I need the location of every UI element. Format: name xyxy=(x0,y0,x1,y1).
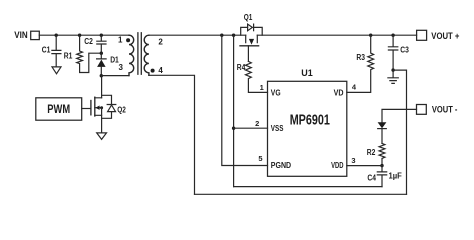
ground (Q2 source) xyxy=(97,133,107,140)
svg-text:R4: R4 xyxy=(237,63,246,72)
svg-text:5: 5 xyxy=(258,154,262,163)
svg-text:VOUT +: VOUT + xyxy=(431,30,460,41)
wire: Q2 source to ground xyxy=(101,108,103,133)
node: C3 bottom / output return xyxy=(391,68,394,71)
wire: PWM to Q2 gate xyxy=(82,108,91,110)
node: C3 tap xyxy=(391,34,394,37)
primary phase dot xyxy=(126,38,130,42)
svg-text:U1: U1 xyxy=(301,68,313,79)
PWM block xyxy=(36,98,82,120)
svg-text:VD: VD xyxy=(334,89,344,98)
VOUT- terminal xyxy=(417,105,427,115)
node: VSS branch xyxy=(232,34,235,37)
transistor Q2 xyxy=(91,97,126,116)
op-amp U1 (MP6901 controller) box xyxy=(268,81,347,176)
node: C1 tap xyxy=(55,34,58,37)
svg-text:PWM: PWM xyxy=(47,103,70,116)
svg-text:Q2: Q2 xyxy=(117,106,126,115)
node: C2 tap xyxy=(100,34,103,37)
transformer core xyxy=(138,33,141,74)
svg-text:VDD: VDD xyxy=(331,161,344,170)
svg-text:VG: VG xyxy=(271,89,281,98)
svg-text:VIN: VIN xyxy=(14,30,27,40)
wire: rail to VSS / PGND cap rail xyxy=(233,35,235,186)
wire: VOUT- to clamp diode xyxy=(382,109,417,122)
diode D1 xyxy=(97,53,120,75)
VIN terminal xyxy=(31,31,40,39)
svg-text:C2: C2 xyxy=(84,37,93,46)
wire: return to lower rail xyxy=(393,70,406,194)
svg-text:1µF: 1µF xyxy=(389,172,402,181)
node: R1 tap xyxy=(78,34,81,37)
node: PGND branch xyxy=(220,34,223,37)
transformer T primary winding xyxy=(129,35,134,75)
ground (C1) xyxy=(52,67,61,74)
svg-text:PGND: PGND xyxy=(271,161,292,170)
capacitor C4 xyxy=(367,166,402,187)
svg-text:1: 1 xyxy=(118,35,123,44)
resistor R3 xyxy=(347,35,374,92)
wire: secondary return (lower bottom rail) xyxy=(195,193,407,195)
secondary phase dot xyxy=(151,69,155,73)
wire: VDD pin 3 xyxy=(347,165,382,167)
resistor R2 xyxy=(367,143,385,165)
wire: Q1 source rail to VOUT+ xyxy=(257,34,416,36)
svg-text:R3: R3 xyxy=(356,53,365,62)
resistor R1 xyxy=(64,35,102,72)
wire: Q1 gate to R4 xyxy=(247,46,249,62)
svg-text:4: 4 xyxy=(158,66,163,75)
resistor R4 xyxy=(237,61,268,92)
svg-text:C4: C4 xyxy=(367,173,376,182)
capacitor C3 xyxy=(388,35,409,70)
capacitor C1 xyxy=(42,35,61,67)
ground (C3, earth style) xyxy=(388,70,398,83)
svg-text:2: 2 xyxy=(158,37,163,46)
wire: rail to PGND pin 5 xyxy=(222,35,268,165)
svg-text:VOUT -: VOUT - xyxy=(432,104,458,115)
svg-text:MP6901: MP6901 xyxy=(290,113,330,129)
wire: PGND rail (upper bottom rail) xyxy=(234,186,382,188)
svg-text:R1: R1 xyxy=(64,52,73,61)
diode (VDD supply) xyxy=(378,122,387,143)
svg-text:2: 2 xyxy=(255,119,259,128)
svg-text:3: 3 xyxy=(118,63,123,72)
node: VSS tap xyxy=(232,127,235,130)
svg-text:R2: R2 xyxy=(367,148,376,157)
wire: secondary pin 4 down xyxy=(149,75,195,194)
svg-text:VSS: VSS xyxy=(271,124,284,133)
transistor Q1 body diode xyxy=(241,24,263,35)
node: clamp junction (R1/C2/D1) xyxy=(100,52,103,55)
svg-text:C1: C1 xyxy=(42,45,51,54)
wire: switch node to primary pin 3 xyxy=(101,75,129,77)
svg-text:4: 4 xyxy=(352,83,357,92)
transistor Q1 channel xyxy=(240,35,259,46)
svg-text:1: 1 xyxy=(260,83,264,92)
svg-text:C3: C3 xyxy=(400,45,409,54)
svg-text:3: 3 xyxy=(351,156,355,165)
wire: secondary pin 2 rail to Q1 xyxy=(149,34,246,36)
transistor Q2 body diode xyxy=(102,95,116,118)
wire: VIN to primary top xyxy=(39,34,129,36)
svg-text:Q1: Q1 xyxy=(244,13,253,22)
node: Q2 body-source tie xyxy=(100,106,103,109)
node: R3 tap xyxy=(369,34,372,37)
transformer T secondary winding xyxy=(144,35,149,75)
node: switch node (D1/primary/Q2 drain) xyxy=(100,74,103,77)
VOUT+ terminal xyxy=(417,30,427,40)
wire: Q2 drain xyxy=(101,76,103,98)
wire: VSS pin 2 xyxy=(234,127,268,129)
node: VDD xyxy=(380,164,383,167)
capacitor C2 xyxy=(84,35,106,53)
